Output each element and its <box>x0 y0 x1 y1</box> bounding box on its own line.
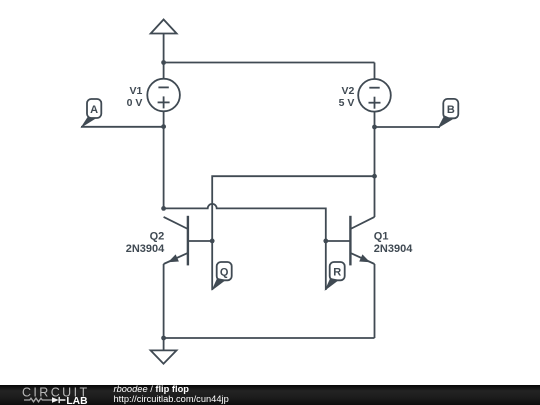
wire upper cross (Q2 base to Q1 collector net) <box>212 176 374 290</box>
node junction ground <box>161 336 166 341</box>
svg-text:Q1: Q1 <box>374 231 389 243</box>
node junction A wire <box>161 124 166 129</box>
svg-text:B: B <box>447 104 455 116</box>
node junction B wire <box>372 125 377 130</box>
node junction lower cross wire left <box>161 206 166 211</box>
wire bottom rail <box>164 337 375 339</box>
svg-text:5 V: 5 V <box>339 97 355 109</box>
wire Q1 emitter down to bottom rail <box>374 264 376 338</box>
flag R <box>325 262 345 291</box>
node junction top rail at V1 <box>161 60 166 65</box>
svg-text:Q2: Q2 <box>150 231 165 243</box>
flag Q <box>211 262 231 291</box>
wire V1 down to lower cross wire <box>163 127 165 209</box>
svg-text:R: R <box>333 267 341 279</box>
label V2 value <box>339 85 355 109</box>
wire from V2 bottom to flag B <box>375 126 441 128</box>
voltage source V1 <box>147 63 180 127</box>
label Q1 2N3904 <box>374 231 413 256</box>
svg-text:Q: Q <box>220 267 229 279</box>
wire Q2 emitter down to bottom rail <box>163 264 165 338</box>
footer attribution text <box>114 384 229 404</box>
flag A <box>80 99 101 128</box>
transistor Q1 (NPN) <box>326 216 375 266</box>
svg-text:rboodee / flip flop: rboodee / flip flop <box>114 384 190 394</box>
svg-text:V1: V1 <box>130 85 143 97</box>
svg-text:LAB: LAB <box>66 396 87 405</box>
ground symbol <box>151 338 177 364</box>
transistor Q2 (mirrored NPN) <box>164 216 213 266</box>
wire from flag A to V1 bottom <box>81 126 164 128</box>
wire V2 down through upper cross junction to Q1 collector <box>374 127 376 217</box>
footer bar <box>0 385 540 405</box>
CircuitLab logo <box>22 385 90 405</box>
wire lower cross with hop (Q2 collector net to Q1 base) <box>164 204 326 290</box>
svg-text:http://circuitlab.com/cun44jp: http://circuitlab.com/cun44jp <box>114 394 229 404</box>
svg-text:A: A <box>90 104 98 116</box>
wire top rail <box>164 62 375 64</box>
voltage source V2 <box>358 63 391 128</box>
node junction Q1 base <box>323 239 328 244</box>
node junction Q2 base <box>210 239 215 244</box>
svg-text:V2: V2 <box>342 85 355 97</box>
svg-text:2N3904: 2N3904 <box>126 243 165 255</box>
label Q2 2N3904 <box>126 231 165 256</box>
svg-text:2N3904: 2N3904 <box>374 243 413 255</box>
svg-text:0 V: 0 V <box>127 97 143 109</box>
node junction upper cross wire right <box>372 174 377 179</box>
flag B <box>438 99 459 128</box>
power supply V+ symbol <box>151 20 177 63</box>
label V1 value <box>127 85 143 109</box>
